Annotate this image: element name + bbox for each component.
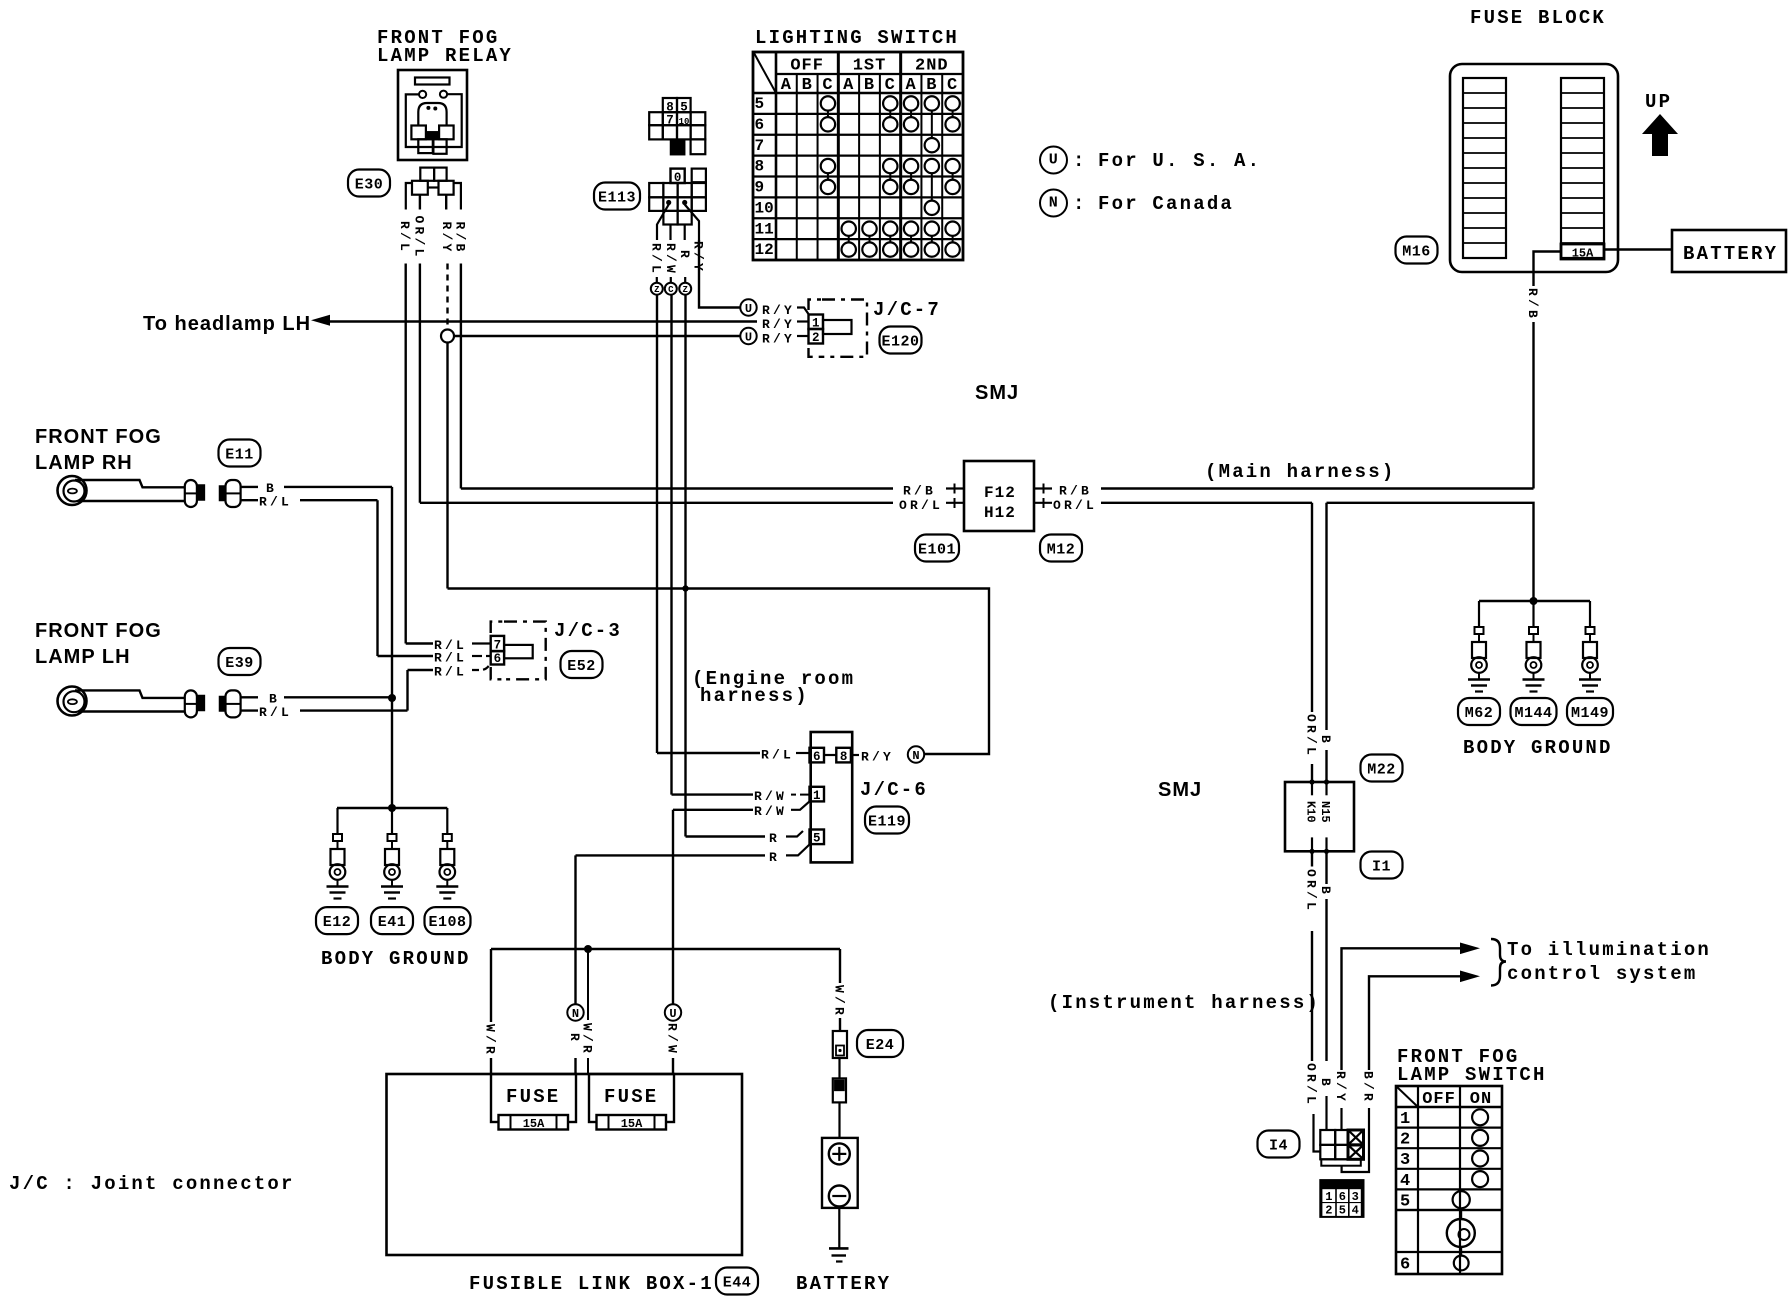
svg-text:B: B [926, 76, 937, 95]
svg-text:N: N [572, 1007, 579, 1021]
svg-text:1: 1 [813, 789, 821, 803]
wire B/R to illumination row 2 [1369, 976, 1462, 1070]
svg-text:E30: E30 [355, 177, 384, 194]
wire W/R to fuse 1 left [490, 949, 492, 1022]
J/C-6 row R/L pin 6 pin 8 R/Y N [657, 752, 760, 754]
wire W/R from bus to battery [839, 949, 841, 983]
svg-text:FRONT FOG: FRONT FOG [35, 426, 162, 448]
J/C-7 bus bar [823, 320, 852, 334]
I4 bottom plate [1321, 1159, 1361, 1165]
svg-text:5: 5 [680, 101, 688, 115]
fuse block outline [1450, 64, 1618, 272]
SMJ box F12 H12 [964, 461, 1034, 531]
svg-text:R/L: R/L [761, 748, 794, 763]
svg-text:To illumination: To illumination [1507, 939, 1711, 961]
svg-text:3: 3 [1400, 1151, 1411, 1170]
fuse 2 [589, 1074, 674, 1122]
svg-text:9: 9 [755, 179, 765, 197]
wires from Z C Z down to J/C-6 [656, 295, 658, 753]
wire OR/L down at x=1312 [1311, 503, 1313, 712]
svg-text:E101: E101 [918, 542, 956, 559]
BATTERY box (top right) [1672, 230, 1786, 272]
ground E12 [336, 808, 338, 834]
svg-text:LAMP RELAY: LAMP RELAY [377, 45, 513, 67]
svg-text:6: 6 [755, 116, 765, 134]
svg-text:E108: E108 [428, 914, 466, 931]
fog lamp LH bulb symbol [58, 687, 87, 716]
J/C-7 dashed box [809, 300, 868, 357]
table corner diagonal [754, 53, 776, 93]
svg-text:12: 12 [755, 241, 774, 259]
svg-text:C: C [885, 76, 896, 95]
svg-text:R/Y: R/Y [762, 303, 795, 318]
svg-text:J/C : Joint connector: J/C : Joint connector [9, 1173, 295, 1195]
svg-text:R/Y: R/Y [762, 317, 795, 332]
svg-text:7: 7 [494, 638, 502, 652]
oval E113 [594, 183, 640, 210]
E113 lower connector grid [671, 169, 685, 183]
svg-text:E41: E41 [378, 914, 407, 931]
svg-text:M16: M16 [1402, 244, 1431, 261]
svg-text:R/W: R/W [754, 804, 787, 819]
svg-text:U: U [1049, 152, 1059, 169]
svg-text:ON: ON [1470, 1090, 1492, 1109]
svg-text:OFF: OFF [790, 57, 824, 76]
wire R/Y from E113 to J/C-7 [699, 240, 740, 308]
J/C-3 row 3 R/L [408, 669, 434, 671]
J/C-6 R rows pin 5 [686, 835, 766, 837]
wire OR/L horizontal run y=502.8 [420, 502, 893, 504]
svg-text:R: R [769, 850, 780, 865]
ground bus M62 M144 M149 [1479, 600, 1590, 602]
wire R/B from 15A fuse down [1534, 252, 1562, 287]
svg-text:M12: M12 [1047, 542, 1076, 559]
svg-text:BATTERY: BATTERY [1683, 243, 1778, 265]
wire R/B from relay (x=460.9) down [460, 264, 462, 489]
svg-text:B: B [1318, 886, 1333, 897]
svg-text:OR/L: OR/L [1304, 869, 1319, 913]
svg-text:A: A [781, 76, 792, 95]
J/C-3 bus bar [504, 645, 533, 658]
svg-text:R/Y: R/Y [1333, 1071, 1348, 1104]
svg-text:OFF: OFF [1422, 1090, 1456, 1109]
svg-text:R/L: R/L [397, 221, 412, 254]
I4 black number block [1320, 1180, 1363, 1217]
relay coil bar [415, 78, 450, 85]
svg-text:B: B [802, 76, 813, 95]
svg-text:R/L: R/L [649, 243, 664, 276]
svg-text:10: 10 [679, 117, 690, 127]
svg-text::: : [1073, 150, 1087, 172]
svg-text:LAMP SWITCH: LAMP SWITCH [1397, 1064, 1547, 1086]
ovals M22 I1 [1361, 755, 1403, 782]
svg-text:OR/L: OR/L [411, 216, 426, 260]
oval I4 [1258, 1131, 1300, 1158]
wire fuse block to battery [1604, 248, 1672, 250]
svg-text:6: 6 [1339, 1190, 1346, 1204]
svg-text:8: 8 [666, 101, 674, 115]
wire R/W (U) down from J/C-6 to fuse 2 (x=673) [672, 810, 674, 1005]
battery ground [838, 1207, 840, 1249]
svg-text:(Main harness): (Main harness) [1205, 461, 1395, 483]
svg-text:J/C-3: J/C-3 [554, 620, 622, 642]
J/C-3 dashed box [491, 622, 546, 680]
svg-text:harness): harness) [700, 685, 809, 707]
ground E41 [391, 808, 393, 834]
svg-text:R/B: R/B [903, 484, 936, 499]
svg-text:OR/L: OR/L [1304, 1063, 1319, 1107]
W/R bus y=949 [491, 948, 840, 950]
wire R/Y loop to J/C-6 pin 8 [448, 589, 990, 755]
svg-text:R/L: R/L [434, 665, 467, 680]
J/C-3 row 1 R/L [406, 642, 433, 644]
svg-text:FUSE: FUSE [506, 1086, 560, 1108]
ground bus for E12 E41 E108 [337, 807, 447, 809]
svg-text:1: 1 [1325, 1190, 1332, 1204]
svg-text:UP: UP [1645, 91, 1672, 113]
svg-text:For U. S. A.: For U. S. A. [1098, 150, 1261, 172]
svg-text:4: 4 [1400, 1172, 1411, 1191]
svg-text:6: 6 [494, 652, 502, 666]
svg-text:E119: E119 [868, 814, 906, 831]
switch table [1396, 1086, 1502, 1274]
svg-text:E11: E11 [225, 447, 254, 464]
wires below SMJ box with labels [1311, 851, 1313, 866]
svg-text:M62: M62 [1465, 705, 1494, 722]
LH lamp wires and labels B R/L [241, 696, 258, 698]
svg-text:2: 2 [1400, 1131, 1411, 1150]
wire R/Y below node down to corner [446, 343, 448, 589]
svg-text:LIGHTING SWITCH: LIGHTING SWITCH [755, 27, 959, 49]
wire R/B horizontal run y=488.5 [461, 487, 893, 489]
svg-text:LAMP LH: LAMP LH [35, 646, 131, 668]
svg-text:R: R [677, 250, 692, 261]
legend circled N : For Canada [1040, 190, 1067, 217]
svg-text:M149: M149 [1571, 705, 1609, 722]
wire W/R to fuse 2 left (x=588) [587, 949, 589, 1020]
relay contact circles [419, 91, 426, 98]
svg-text:OR/L: OR/L [1304, 714, 1319, 758]
svg-text:N: N [1049, 195, 1059, 212]
svg-text:2ND: 2ND [915, 57, 949, 76]
svg-text:control system: control system [1507, 963, 1697, 985]
ground M149 [1589, 601, 1591, 627]
svg-text:1ST: 1ST [853, 57, 887, 76]
line from node to J/C-7 pin 2 [454, 335, 740, 337]
svg-text:U: U [669, 1007, 676, 1021]
svg-text:R/W: R/W [665, 1023, 680, 1056]
svg-text:E39: E39 [225, 655, 254, 672]
svg-text:B: B [864, 76, 875, 95]
svg-text:11: 11 [755, 220, 774, 238]
table circle links [827, 111, 829, 117]
legend circled U : For U.S.A. [1040, 147, 1067, 174]
svg-text:A: A [843, 76, 854, 95]
switch table diagonal [1397, 1087, 1418, 1107]
svg-text:W/R: W/R [483, 1024, 498, 1057]
svg-text:FRONT FOG: FRONT FOG [35, 620, 162, 642]
svg-text:To headlamp LH: To headlamp LH [143, 313, 311, 335]
LH lamp connector pills [185, 690, 197, 717]
relay inner wire loop [406, 94, 462, 147]
svg-text:B/R: B/R [1361, 1071, 1376, 1104]
J/C-3 row 2 R/L [378, 655, 434, 657]
svg-text:15A: 15A [523, 1117, 545, 1131]
svg-text:R/B: R/B [1059, 484, 1092, 499]
E30 connector [420, 168, 434, 181]
connector E24 symbols [833, 1031, 847, 1058]
wire B horizontal y=502.8 right segment [1327, 503, 1534, 601]
relay E30 outer box [398, 70, 467, 160]
svg-text:5: 5 [1400, 1192, 1411, 1211]
wire B from main run down to ground junction [1530, 597, 1538, 605]
svg-text:E44: E44 [723, 1275, 752, 1292]
svg-text:5: 5 [1339, 1204, 1346, 1218]
svg-text::: : [1073, 193, 1087, 215]
relay contact boxes [411, 126, 426, 140]
fog lamp RH bulb symbol [58, 476, 87, 505]
wire R down from corner to fuse1 via N circle (x=575.5) [574, 855, 576, 1004]
svg-text:6: 6 [1400, 1256, 1411, 1275]
svg-text:R: R [769, 831, 780, 846]
ovals E12 E41 E108 [316, 907, 358, 934]
svg-text:OR/L: OR/L [899, 498, 943, 513]
svg-text:J/C-7: J/C-7 [873, 299, 941, 321]
svg-text:FUSE BLOCK: FUSE BLOCK [1470, 7, 1606, 29]
headlamp line to J/C-7 pin 1 [329, 320, 757, 322]
J/C-7 pin boxes 1 2 [809, 315, 824, 330]
second R row from fuse 1 [576, 854, 766, 856]
svg-text:4: 4 [1352, 1204, 1359, 1218]
wire to battery [838, 1102, 840, 1138]
svg-text:Z: Z [682, 285, 687, 295]
svg-text:R/B: R/B [452, 222, 467, 255]
svg-text:N: N [912, 749, 919, 763]
svg-text:M22: M22 [1367, 762, 1396, 779]
svg-text:J/C-6: J/C-6 [860, 779, 928, 801]
svg-text:BODY GROUND: BODY GROUND [1463, 737, 1613, 759]
ground M62 [1478, 601, 1480, 627]
wire LH R/L up to J/C-3 row 3 (x=407.5) [406, 670, 408, 711]
E113 upper connector grid [663, 98, 677, 112]
wire R/Y from relay (x=447.5) dashed to node [446, 264, 448, 330]
svg-text:15A: 15A [1572, 247, 1594, 261]
svg-text:R/L: R/L [434, 651, 467, 666]
svg-text:BATTERY: BATTERY [796, 1273, 891, 1295]
svg-text:R/Y: R/Y [439, 222, 454, 255]
svg-text:FUSE: FUSE [604, 1086, 658, 1108]
svg-text:W/R: W/R [832, 985, 847, 1018]
svg-text:I4: I4 [1269, 1138, 1288, 1155]
svg-text:1: 1 [1400, 1110, 1411, 1129]
ground E108 [446, 808, 448, 834]
svg-text:W/R: W/R [580, 1023, 595, 1056]
node circle on R/Y wire [441, 330, 454, 343]
svg-text:BODY GROUND: BODY GROUND [321, 948, 471, 970]
J/C-6 R/W rows pin 1 [672, 793, 754, 795]
fuse block left column [1463, 78, 1506, 258]
svg-text:For Canada: For Canada [1098, 193, 1234, 215]
svg-text:A: A [905, 76, 916, 95]
svg-text:C: C [668, 285, 674, 295]
svg-text:SMJ: SMJ [1158, 779, 1202, 801]
switch contacts rows 1-4 [1472, 1109, 1488, 1125]
svg-text:OR/L: OR/L [1053, 498, 1097, 513]
svg-text:E12: E12 [323, 914, 352, 931]
svg-text:8: 8 [840, 750, 848, 764]
svg-text:R/W: R/W [754, 789, 787, 804]
arrow head left [311, 315, 330, 326]
wire R/Y to illumination row 1 [1342, 948, 1463, 1070]
table contact circles [821, 96, 835, 110]
RH lamp connector pills [185, 480, 197, 507]
svg-text:H12: H12 [984, 504, 1016, 522]
svg-text:E24: E24 [866, 1037, 895, 1054]
fuse 1 [491, 1074, 576, 1122]
lighting switch table [753, 52, 963, 260]
svg-text:5: 5 [813, 832, 821, 846]
brace [1491, 939, 1506, 986]
svg-text:7: 7 [666, 114, 674, 128]
svg-text:R/L: R/L [259, 705, 292, 720]
fuse block right column [1561, 78, 1604, 258]
pin ticks at F12/H12 [954, 484, 956, 494]
RH lamp wires and labels B R/L [241, 486, 258, 488]
M16 oval [1396, 237, 1438, 264]
svg-text:R/L: R/L [259, 495, 292, 510]
wire RH R/L down to J/C-3 (x=377.5) [376, 500, 378, 656]
J/C-6 box [811, 732, 853, 862]
ground M144 [1532, 601, 1534, 627]
svg-text:R/W: R/W [663, 243, 678, 276]
svg-text:M144: M144 [1514, 705, 1552, 722]
svg-text:10: 10 [755, 199, 774, 217]
svg-text:B: B [1318, 735, 1333, 746]
wire RH B down (x=392) [391, 487, 393, 808]
svg-text:R/Y: R/Y [861, 750, 894, 765]
svg-text:F12: F12 [984, 484, 1016, 502]
svg-text:3: 3 [1352, 1190, 1359, 1204]
svg-text:6: 6 [813, 750, 821, 764]
oval E44 [716, 1268, 758, 1295]
oval E11 [219, 440, 261, 467]
svg-text:(Instrument harness): (Instrument harness) [1048, 992, 1320, 1014]
svg-text:15A: 15A [621, 1117, 643, 1131]
svg-text:R/B: R/B [1525, 288, 1540, 321]
ovals E101 M12 [915, 535, 959, 562]
svg-text:1: 1 [812, 317, 820, 331]
svg-text:U: U [745, 331, 752, 345]
SMJ box N15 K10 [1285, 782, 1354, 851]
svg-text:E52: E52 [567, 658, 596, 675]
E113 pin dots and lead-outs [666, 200, 671, 205]
svg-text:2: 2 [812, 331, 820, 345]
15A fuse cell [1561, 244, 1604, 259]
J/C-3 pin boxes 7 6 [491, 636, 504, 651]
fusible link box outline [387, 1074, 743, 1255]
circled Z C Z terminals [651, 283, 663, 295]
svg-text:Z: Z [654, 285, 659, 295]
I4 connector grid [1320, 1130, 1335, 1145]
svg-text:8: 8 [755, 158, 765, 176]
ovals M62 M144 M149 [1458, 698, 1500, 725]
oval E39 [219, 648, 261, 675]
svg-text:5: 5 [755, 95, 765, 113]
svg-text:N15: N15 [1318, 801, 1332, 823]
svg-text:2: 2 [1325, 1204, 1332, 1218]
svg-text:U: U [745, 302, 752, 316]
svg-text:FUSIBLE LINK BOX-1: FUSIBLE LINK BOX-1 [469, 1273, 714, 1295]
svg-text:K10: K10 [1304, 801, 1318, 823]
svg-text:B: B [1318, 1078, 1333, 1089]
svg-text:C: C [822, 76, 833, 95]
battery box [822, 1138, 858, 1208]
J/C-7 top R/Y row circled U [740, 299, 756, 315]
relay armature arch [418, 103, 446, 126]
svg-text:I1: I1 [1372, 859, 1391, 876]
svg-text:LAMP RH: LAMP RH [35, 452, 133, 474]
oval E30 [348, 170, 390, 197]
X marks in right column [1348, 1130, 1364, 1145]
svg-text:R/Y: R/Y [762, 332, 795, 347]
svg-text:C: C [947, 76, 958, 95]
svg-text:E113: E113 [598, 190, 636, 207]
wire R/L from relay (x=405.7) down to J/C-3 pin 7 [405, 264, 407, 644]
svg-text:7: 7 [755, 137, 765, 155]
J/C-7 bottom row circled U R/Y [740, 328, 756, 344]
I4 stub wires [1314, 1114, 1321, 1152]
svg-text:SMJ: SMJ [975, 382, 1019, 404]
svg-text:E120: E120 [881, 334, 919, 351]
switch row 5 contact + lamp + row 6 [1453, 1191, 1470, 1208]
wire OR/L from relay (x=419.9) down [419, 264, 421, 503]
